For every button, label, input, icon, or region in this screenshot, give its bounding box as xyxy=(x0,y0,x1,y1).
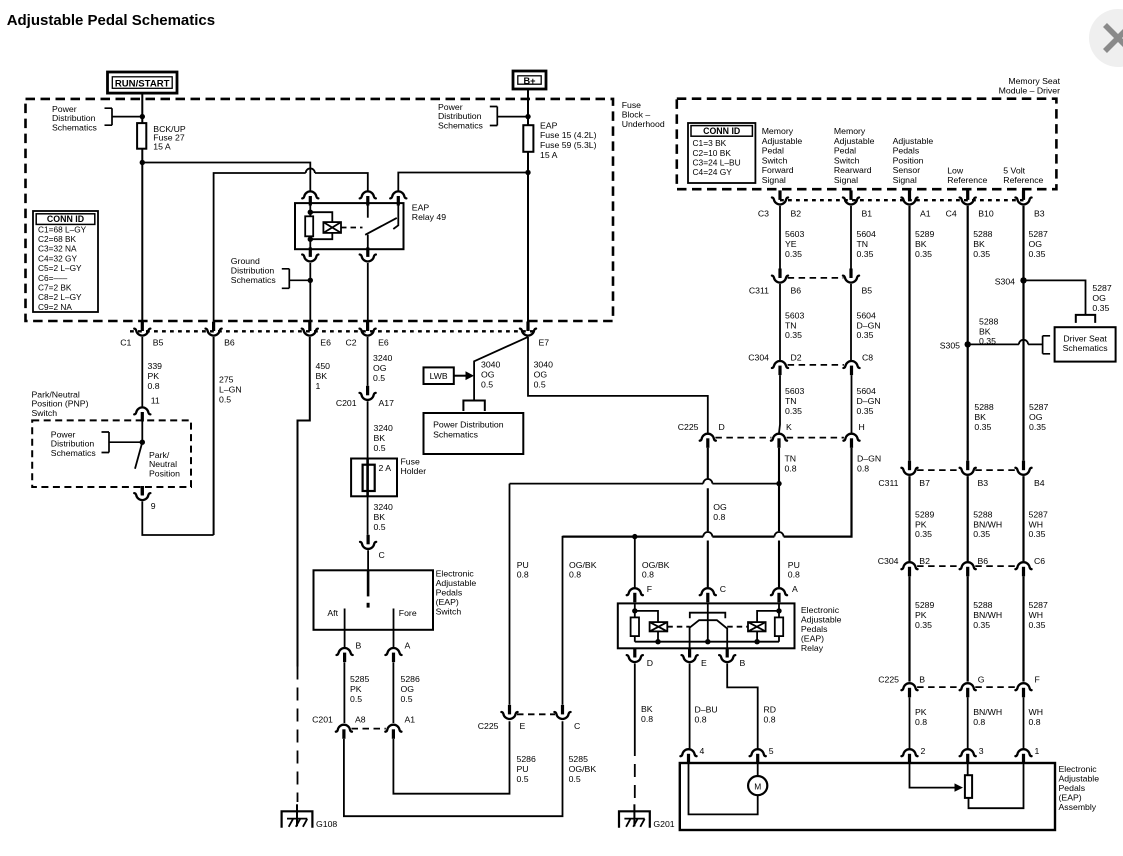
svg-text:C4=24 GY: C4=24 GY xyxy=(693,167,733,177)
svg-text:Switch: Switch xyxy=(834,155,860,165)
svg-text:Adjustable: Adjustable xyxy=(762,136,803,146)
module connector at x=967.7 xyxy=(960,190,976,204)
relay 49 switch xyxy=(367,204,369,218)
svg-text:B3: B3 xyxy=(1034,209,1045,219)
svg-text:Memory: Memory xyxy=(834,126,866,136)
svg-text:0.35: 0.35 xyxy=(857,330,874,340)
svg-text:339: 339 xyxy=(148,361,163,371)
hop coil wire over switch feed xyxy=(306,168,315,173)
svg-text:Fuse 59 (5.3L): Fuse 59 (5.3L) xyxy=(540,140,597,150)
dashed wire to G108 xyxy=(297,667,299,803)
svg-text:H: H xyxy=(859,422,865,432)
svg-text:0.5: 0.5 xyxy=(534,379,546,389)
relay2 right coil to bus xyxy=(756,631,758,641)
connector C into EAP switch xyxy=(360,535,376,549)
wire 5289 BK long xyxy=(908,206,910,461)
svg-text:Power Distribution: Power Distribution xyxy=(433,420,504,430)
relay 49 coil branch xyxy=(310,212,332,239)
wire C into switch box xyxy=(367,550,369,570)
relay2 dashed right xyxy=(727,626,748,628)
svg-text:5288: 5288 xyxy=(979,316,998,326)
wire 339 PK xyxy=(141,337,143,407)
svg-text:BK: BK xyxy=(915,239,927,249)
svg-text:Pedals: Pedals xyxy=(436,588,463,598)
svg-text:C201: C201 xyxy=(312,715,333,725)
PNP switch blade xyxy=(135,442,142,469)
svg-text:0.8: 0.8 xyxy=(973,717,985,727)
svg-text:PK: PK xyxy=(915,707,927,717)
svg-text:C3=24 L–BU: C3=24 L–BU xyxy=(693,158,741,168)
svg-text:5288: 5288 xyxy=(973,600,992,610)
svg-text:0.35: 0.35 xyxy=(915,249,932,259)
junction OG/BK split xyxy=(632,534,637,539)
connector B xyxy=(719,648,735,662)
svg-text:Switch: Switch xyxy=(762,155,788,165)
svg-text:5289: 5289 xyxy=(915,600,934,610)
svg-text:Switch: Switch xyxy=(436,607,462,617)
svg-text:A1: A1 xyxy=(920,209,931,219)
svg-text:B5: B5 xyxy=(862,286,873,296)
svg-text:WH: WH xyxy=(1029,707,1043,717)
relay pin connector (coil+) xyxy=(302,191,318,205)
svg-text:Pedal: Pedal xyxy=(834,146,856,156)
wire 3240 BK upper xyxy=(367,401,369,458)
relay pin connector (coil-) xyxy=(302,247,318,261)
connector row C311 B6/B5 xyxy=(772,269,788,283)
svg-text:3040: 3040 xyxy=(481,360,500,370)
svg-text:CONN ID: CONN ID xyxy=(47,214,84,224)
svg-text:0.8: 0.8 xyxy=(148,381,160,391)
svg-text:BN/WH: BN/WH xyxy=(973,610,1002,620)
svg-text:1: 1 xyxy=(1035,746,1040,756)
svg-text:Adjustable: Adjustable xyxy=(436,578,477,588)
svg-text:0.5: 0.5 xyxy=(569,774,581,784)
dashed link B2-B6 xyxy=(917,565,960,567)
svg-text:15 A: 15 A xyxy=(540,150,558,160)
wire PK 0.8 xyxy=(909,697,911,748)
connector pin A xyxy=(385,648,401,662)
svg-text:B3: B3 xyxy=(978,478,989,488)
svg-text:0.5: 0.5 xyxy=(373,373,385,383)
svg-text:Pedals: Pedals xyxy=(893,146,920,156)
svg-text:C9=2 NA: C9=2 NA xyxy=(38,302,72,312)
svg-text:C: C xyxy=(574,721,580,731)
svg-text:0.8: 0.8 xyxy=(1029,717,1041,727)
svg-text:C5=2 L–GY: C5=2 L–GY xyxy=(38,263,82,273)
svg-text:0.35: 0.35 xyxy=(974,422,991,432)
svg-text:Fuse 15 (4.2L): Fuse 15 (4.2L) xyxy=(540,130,597,140)
svg-text:Switch: Switch xyxy=(32,408,58,418)
wire 5287 WH lower xyxy=(1022,576,1024,681)
wire E7 to LWB stub xyxy=(474,337,528,401)
svg-text:BK: BK xyxy=(974,412,986,422)
svg-text:0.8: 0.8 xyxy=(517,570,529,580)
horizontal PU link xyxy=(510,483,780,485)
relay2 bottom bus xyxy=(635,641,779,643)
relay2 dashed left xyxy=(667,626,690,628)
dashed link B-G xyxy=(917,686,960,688)
svg-text:5 Volt: 5 Volt xyxy=(1003,165,1025,175)
svg-text:Adjustable: Adjustable xyxy=(893,136,934,146)
relay2 C stem xyxy=(707,603,709,641)
svg-text:Pedal: Pedal xyxy=(762,146,784,156)
EAP switch wiper stem xyxy=(367,570,370,596)
svg-text:0.8: 0.8 xyxy=(713,512,725,522)
relay pin connector (switch out) xyxy=(360,247,376,261)
svg-text:BK: BK xyxy=(641,704,653,714)
svg-text:Reference: Reference xyxy=(1003,175,1043,185)
wire pin 9 to 275 L-GN xyxy=(142,501,213,535)
svg-text:Pedals: Pedals xyxy=(1059,783,1086,793)
wire 5287 OG long xyxy=(1022,206,1024,461)
svg-text:5604: 5604 xyxy=(857,229,876,239)
svg-text:OG: OG xyxy=(534,369,548,379)
svg-text:0.5: 0.5 xyxy=(350,694,362,704)
svg-text:5288: 5288 xyxy=(973,229,992,239)
dashed link B7-B3 xyxy=(917,469,960,471)
module connector at x=909.5 xyxy=(901,190,917,204)
wire pin 2 to wiper arrow xyxy=(910,763,955,788)
wire 5604 D-GN to H xyxy=(851,375,853,433)
svg-text:Electronic: Electronic xyxy=(1059,764,1098,774)
svg-text:OG/BK: OG/BK xyxy=(642,560,670,570)
EAP switch Aft contact xyxy=(344,609,346,630)
svg-text:0.35: 0.35 xyxy=(785,406,802,416)
dashed link B3-B4 xyxy=(975,469,1016,471)
svg-text:4: 4 xyxy=(700,746,705,756)
wire D-GN down and left to C/F xyxy=(563,448,852,537)
wire 5288 BK long xyxy=(967,206,969,461)
svg-text:C311: C311 xyxy=(749,286,769,296)
wire E7 OG to C225 D xyxy=(528,337,708,433)
PNP switch dashed box xyxy=(32,420,191,487)
svg-text:WH: WH xyxy=(1029,610,1043,620)
svg-text:B: B xyxy=(356,641,362,651)
svg-text:0.35: 0.35 xyxy=(1029,529,1046,539)
svg-text:F: F xyxy=(1035,675,1040,685)
svg-text:5287: 5287 xyxy=(1029,229,1048,239)
svg-text:Block –: Block – xyxy=(622,110,651,120)
svg-text:0.8: 0.8 xyxy=(569,570,581,580)
wire 5604 D-GN xyxy=(850,284,852,360)
svg-text:5: 5 xyxy=(769,746,774,756)
svg-text:Fuse: Fuse xyxy=(401,457,420,467)
svg-text:C311: C311 xyxy=(878,478,898,488)
wire 5289 PK xyxy=(908,476,910,561)
svg-text:Relay 49: Relay 49 xyxy=(412,212,446,222)
connector at x=213.6 xyxy=(206,322,222,336)
wire B+ down to E7 xyxy=(527,89,529,331)
wire OG/BK 0.8 to F xyxy=(634,537,636,588)
svg-text:Sensor: Sensor xyxy=(893,165,921,175)
relay2 bracket bar xyxy=(690,613,726,619)
junction fuse27 output xyxy=(140,160,145,165)
wire 5288 BN/WH xyxy=(967,476,969,561)
svg-text:G201: G201 xyxy=(653,819,674,829)
relay2 left coil xyxy=(650,622,668,631)
svg-text:Adjustable Pedal Schematics: Adjustable Pedal Schematics xyxy=(7,12,215,29)
svg-text:OG: OG xyxy=(401,684,415,694)
wire 450 BK xyxy=(298,337,310,667)
relay 49 coil resistor xyxy=(309,204,311,250)
svg-text:B+: B+ xyxy=(523,76,535,86)
svg-text:B1: B1 xyxy=(862,209,873,219)
wire A1 to E xyxy=(393,721,509,794)
svg-text:0.35: 0.35 xyxy=(857,249,874,259)
svg-text:Adjustable: Adjustable xyxy=(1059,774,1100,784)
PNP output tick xyxy=(141,486,144,495)
connector F xyxy=(627,588,643,602)
relay2 right coil xyxy=(748,622,766,631)
wire RD 0.8 xyxy=(727,664,758,749)
dashed link D-K xyxy=(715,437,771,439)
wire relay fixed contact to B+ xyxy=(398,173,528,191)
bracket to PNP switch xyxy=(102,432,143,453)
relay2 switch blade legs xyxy=(690,620,728,648)
svg-text:5289: 5289 xyxy=(915,229,934,239)
hop over OG wire xyxy=(703,532,712,537)
bracket to B+ wire xyxy=(490,107,528,126)
connector E xyxy=(682,648,698,662)
hop over OG wire xyxy=(703,479,712,484)
svg-text:Position: Position xyxy=(893,155,924,165)
svg-text:E6: E6 xyxy=(378,337,389,347)
connector at x=367.6 xyxy=(360,322,376,336)
wire pin 5 to motor xyxy=(757,763,759,776)
svg-text:C225: C225 xyxy=(878,675,899,685)
svg-text:C2=68 BK: C2=68 BK xyxy=(38,234,77,244)
fuse block underhood dashed box xyxy=(26,99,614,321)
svg-text:B: B xyxy=(919,675,925,685)
svg-text:0.35: 0.35 xyxy=(915,529,932,539)
LWB arrow xyxy=(454,375,466,377)
relay2 right coil branch xyxy=(757,611,779,622)
connector row into EAP assembly xyxy=(680,749,696,763)
svg-text:0.5: 0.5 xyxy=(401,694,413,704)
junction on B+ wire to relay xyxy=(525,170,530,175)
ground G201 xyxy=(619,804,650,827)
svg-text:Memory Seat: Memory Seat xyxy=(1008,76,1060,86)
svg-text:0.5: 0.5 xyxy=(481,379,493,389)
svg-text:PK: PK xyxy=(915,519,927,529)
svg-text:PK: PK xyxy=(148,371,160,381)
svg-text:0.8: 0.8 xyxy=(764,714,776,724)
svg-text:S304: S304 xyxy=(995,276,1015,286)
svg-text:0.35: 0.35 xyxy=(973,249,990,259)
connector pin 11 xyxy=(134,407,150,421)
svg-text:PK: PK xyxy=(915,610,927,620)
connector C xyxy=(700,588,716,602)
wire 5286 OG xyxy=(392,662,394,723)
splice S305 xyxy=(965,341,971,347)
svg-text:Assembly: Assembly xyxy=(1059,802,1097,812)
connector bracket into power dist box xyxy=(463,401,484,412)
svg-text:Memory: Memory xyxy=(762,126,794,136)
connector at x=528 xyxy=(520,322,536,336)
connector row C225 E/C xyxy=(501,705,517,719)
svg-text:C3: C3 xyxy=(758,209,769,219)
RUN/START feed box xyxy=(108,72,178,93)
connector A xyxy=(771,588,787,602)
relay pin connector (B+ in) xyxy=(390,191,406,205)
svg-text:0.8: 0.8 xyxy=(641,714,653,724)
svg-text:D–GN: D–GN xyxy=(857,320,881,330)
dashed link D2-C8 xyxy=(788,364,844,366)
svg-text:C: C xyxy=(720,584,726,594)
svg-text:3: 3 xyxy=(979,746,984,756)
svg-text:0.35: 0.35 xyxy=(785,330,802,340)
svg-text:Reference: Reference xyxy=(947,175,987,185)
svg-text:C1: C1 xyxy=(120,337,131,347)
dashed link K-H xyxy=(787,437,844,439)
svg-text:E7: E7 xyxy=(539,337,550,347)
svg-text:Electronic: Electronic xyxy=(801,605,840,615)
svg-text:BN/WH: BN/WH xyxy=(973,519,1002,529)
svg-text:5603: 5603 xyxy=(785,386,804,396)
svg-text:D: D xyxy=(647,658,653,668)
svg-text:Schematics: Schematics xyxy=(231,275,277,285)
svg-text:(EAP): (EAP) xyxy=(436,597,459,607)
svg-text:B6: B6 xyxy=(224,337,235,347)
svg-text:EAP: EAP xyxy=(412,203,430,213)
svg-text:BK: BK xyxy=(979,326,991,336)
EAP assembly box xyxy=(680,763,1055,830)
svg-text:9: 9 xyxy=(151,501,156,511)
svg-text:Module – Driver: Module – Driver xyxy=(999,86,1060,96)
svg-text:OG: OG xyxy=(713,502,727,512)
svg-text:C225: C225 xyxy=(678,422,699,432)
svg-text:C2: C2 xyxy=(345,337,356,347)
svg-text:0.35: 0.35 xyxy=(979,336,996,346)
wire BN/WH 0.8 xyxy=(967,697,969,748)
dashed link B6-B5 xyxy=(788,277,844,279)
svg-text:PU: PU xyxy=(517,560,529,570)
junction at PNP blade xyxy=(140,440,145,445)
wire 5604 TN xyxy=(850,206,852,269)
bracket at driver seat box xyxy=(1043,336,1051,354)
wire 5603 TN to K xyxy=(779,375,780,433)
svg-text:5288: 5288 xyxy=(974,402,993,412)
svg-text:C8: C8 xyxy=(862,353,873,363)
svg-text:D: D xyxy=(719,422,725,432)
wire 5603 TN xyxy=(779,284,781,360)
svg-text:0.35: 0.35 xyxy=(785,249,802,259)
connector C201 A17 xyxy=(360,386,376,400)
svg-text:S305: S305 xyxy=(940,340,960,350)
wire WH 0.8 xyxy=(1023,697,1025,748)
svg-text:B7: B7 xyxy=(919,478,930,488)
dashed link E-C xyxy=(517,713,555,715)
dotted connector line xyxy=(780,199,1024,201)
svg-text:BK: BK xyxy=(973,239,985,249)
wire 3240 OG xyxy=(367,337,369,386)
svg-text:BK: BK xyxy=(316,371,328,381)
svg-text:Signal: Signal xyxy=(834,175,858,185)
relay EAP relay (pedals) box xyxy=(618,603,795,648)
relay2 left coil branch xyxy=(635,611,658,622)
svg-text:0.8: 0.8 xyxy=(642,570,654,580)
connector bracket into driver seat box xyxy=(1076,315,1095,323)
svg-text:C7=2 BK: C7=2 BK xyxy=(38,283,72,293)
svg-text:E: E xyxy=(701,658,707,668)
ground G108 xyxy=(282,804,313,827)
svg-text:B: B xyxy=(740,658,746,668)
EAP switch wiper dash xyxy=(367,603,370,608)
svg-text:5603: 5603 xyxy=(785,310,804,320)
svg-text:TN: TN xyxy=(857,239,869,249)
svg-text:3040: 3040 xyxy=(534,360,553,370)
svg-text:Adjustable: Adjustable xyxy=(801,615,842,625)
svg-text:0.5: 0.5 xyxy=(374,443,386,453)
svg-text:0.35: 0.35 xyxy=(1029,620,1046,630)
PNP switch input stub xyxy=(141,421,143,442)
svg-text:D–GN: D–GN xyxy=(857,454,881,464)
relay 49 coil-switch dashed link xyxy=(341,227,363,229)
EAP switch Fore contact xyxy=(393,609,395,630)
svg-text:5286: 5286 xyxy=(517,754,536,764)
wire 5285 PK xyxy=(343,662,345,723)
svg-text:Schematics: Schematics xyxy=(51,448,97,458)
svg-text:Relay: Relay xyxy=(801,643,824,653)
svg-text:TN: TN xyxy=(785,454,797,464)
svg-text:B5: B5 xyxy=(153,337,164,347)
splice S304 xyxy=(1020,277,1026,283)
EAP switch box xyxy=(314,570,434,630)
connector row C311 B7/B3/B4 xyxy=(901,461,917,475)
svg-text:C6: C6 xyxy=(1034,556,1045,566)
fuse holder xyxy=(351,459,397,497)
svg-text:5286: 5286 xyxy=(401,674,420,684)
svg-text:3240: 3240 xyxy=(374,502,393,512)
svg-text:5285: 5285 xyxy=(569,754,588,764)
junction on B+ wire xyxy=(525,114,530,119)
svg-text:A: A xyxy=(792,584,798,594)
junction on coil- wire xyxy=(308,278,313,283)
svg-text:Position: Position xyxy=(149,468,180,478)
svg-text:5287: 5287 xyxy=(1092,283,1111,293)
dotted connector line xyxy=(130,330,536,332)
svg-text:450: 450 xyxy=(316,361,331,371)
fuse EAP Fuse 15/59 xyxy=(523,125,533,152)
svg-text:F: F xyxy=(647,584,652,594)
svg-text:5287: 5287 xyxy=(1029,402,1048,412)
svg-text:Underhood: Underhood xyxy=(622,119,665,129)
svg-text:Schematics: Schematics xyxy=(438,120,484,130)
connector A1 xyxy=(385,725,401,739)
svg-text:5603: 5603 xyxy=(785,229,804,239)
svg-text:0.35: 0.35 xyxy=(1092,303,1109,313)
svg-text:0.35: 0.35 xyxy=(915,620,932,630)
svg-text:B2: B2 xyxy=(919,556,930,566)
svg-text:0.5: 0.5 xyxy=(374,522,386,532)
wire S304 to driver seat schematics xyxy=(1024,280,1086,315)
svg-text:RUN/START: RUN/START xyxy=(115,79,170,90)
svg-text:0.5: 0.5 xyxy=(517,774,529,784)
LWB callout box xyxy=(424,367,454,384)
relay2 left coil to bus xyxy=(657,631,659,641)
fuse BCK/UP Fuse 27 xyxy=(137,123,146,149)
connector pin B xyxy=(337,648,353,662)
wire PU 0.8 down to A xyxy=(778,484,780,588)
svg-text:Signal: Signal xyxy=(762,175,786,185)
svg-text:D–GN: D–GN xyxy=(857,396,881,406)
svg-text:Fuse: Fuse xyxy=(622,100,641,110)
svg-text:Signal: Signal xyxy=(893,175,917,185)
CONN ID table (fuse block) xyxy=(33,211,98,312)
connector row C225 B/G/F xyxy=(901,683,917,697)
relay pin connector (switch in) xyxy=(360,191,376,205)
svg-text:C304: C304 xyxy=(748,353,769,363)
